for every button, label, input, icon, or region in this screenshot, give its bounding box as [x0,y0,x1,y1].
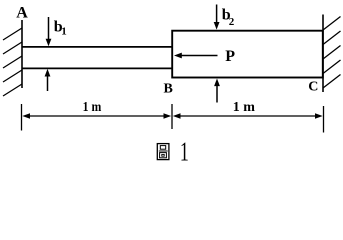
arrow under BC (upward, onto bottom of bar BC) [214,79,220,103]
label b2 [222,7,235,28]
fixed wall at A [21,20,23,88]
node A label [16,4,28,21]
svg-text:2: 2 [229,16,235,28]
label b1 [54,19,67,38]
dimension line A-B [22,113,171,119]
svg-text:1 m: 1 m [233,100,256,115]
dimension line B-C [173,113,323,119]
dimension extension tick at C [323,106,325,133]
svg-text:P: P [225,48,235,65]
dimension label 1 m (left) [83,98,102,114]
svg-text:C: C [308,79,318,94]
dimension label 1 m (right) [233,100,256,115]
node B label [164,81,173,96]
dimension extension tick at A [21,104,23,131]
dimension extension tick at B [171,104,173,129]
node C label [308,79,318,94]
caption: figure number 1 [180,137,189,167]
arrow under AB (upward, onto bottom of bar AB) [45,69,51,91]
bar segment AB (bottom edge) [22,67,172,69]
svg-text:B: B [164,81,173,96]
svg-text:1 m: 1 m [83,98,102,114]
wall C hatching [323,17,341,89]
arrow b1 (downward, onto top of bar AB) [46,17,52,46]
wall A hatching [3,28,22,96]
bar segment AB (top edge) [22,46,172,48]
arrow b2 (downward, onto top of bar BC) [214,5,220,30]
svg-text:1: 1 [180,137,189,167]
bar segment BC (rectangle) [172,31,323,78]
label P [225,48,235,65]
svg-text:A: A [16,4,28,21]
caption: hanzi for "figure" (drawn) [157,144,169,160]
svg-text:1: 1 [61,26,67,38]
force P arrow (leftward, acting at B on bar BC) [174,53,218,59]
fixed wall at C [322,15,324,93]
